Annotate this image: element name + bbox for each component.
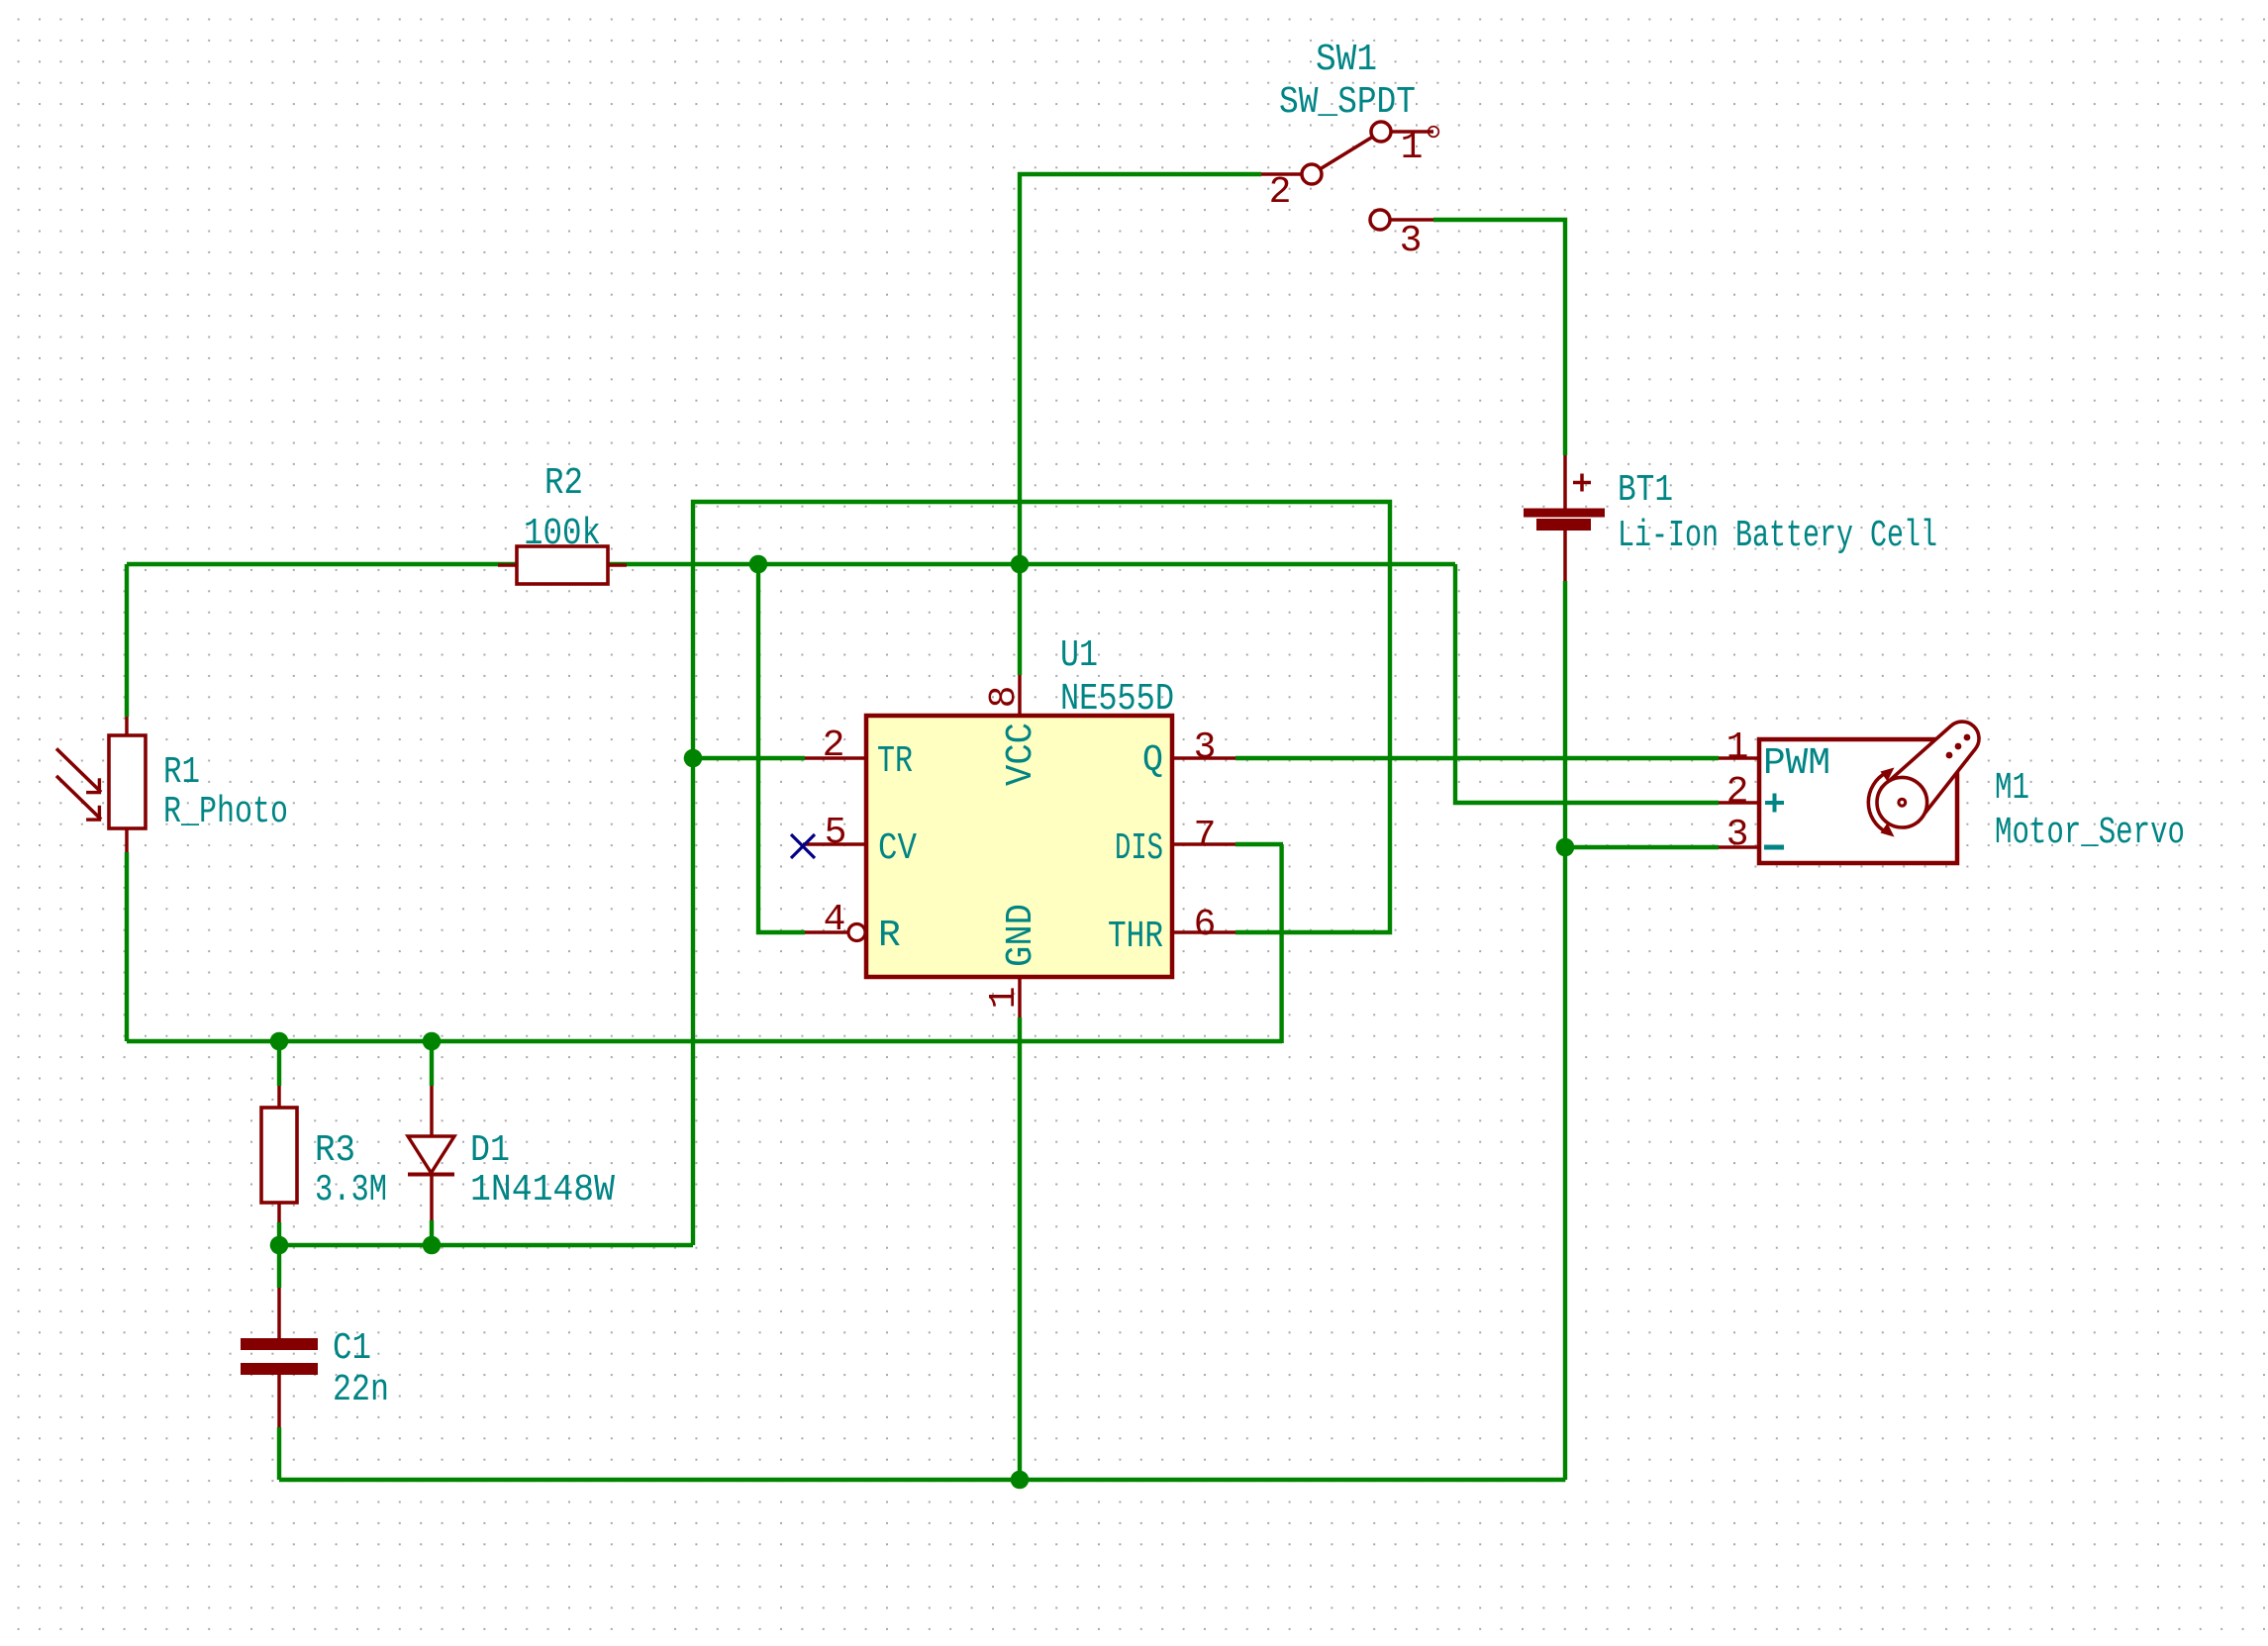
svg-text:1N4148W: 1N4148W — [470, 1169, 615, 1211]
svg-text:DIS: DIS — [1115, 827, 1163, 870]
svg-text:CV: CV — [878, 827, 917, 870]
svg-text:Li-Ion Battery Cell: Li-Ion Battery Cell — [1618, 515, 1937, 557]
svg-text:R_Photo: R_Photo — [163, 791, 288, 833]
svg-text:PWM: PWM — [1763, 742, 1830, 785]
svg-text:3.3M: 3.3M — [315, 1169, 387, 1211]
svg-text:R1: R1 — [163, 751, 200, 794]
svg-text:3: 3 — [1194, 726, 1217, 769]
svg-text:1: 1 — [983, 987, 1026, 1010]
svg-text:U1: U1 — [1060, 634, 1098, 677]
svg-text:GND: GND — [1000, 904, 1042, 967]
svg-text:6: 6 — [1194, 904, 1217, 946]
svg-text:C1: C1 — [333, 1327, 371, 1370]
svg-text:1: 1 — [1726, 726, 1749, 769]
svg-text:BT1: BT1 — [1618, 469, 1673, 512]
svg-text:7: 7 — [1194, 815, 1217, 857]
svg-text:2: 2 — [1269, 171, 1292, 214]
svg-text:2: 2 — [1726, 771, 1749, 814]
svg-text:100k: 100k — [524, 513, 601, 555]
svg-text:4: 4 — [824, 899, 846, 941]
svg-text:R3: R3 — [315, 1129, 355, 1172]
svg-text:1: 1 — [1401, 127, 1424, 169]
svg-text:R: R — [878, 915, 901, 957]
svg-text:5: 5 — [825, 812, 847, 854]
svg-text:VCC: VCC — [1000, 723, 1042, 786]
svg-text:3: 3 — [1726, 814, 1749, 856]
svg-text:M1: M1 — [1995, 767, 2029, 810]
svg-text:TR: TR — [877, 740, 913, 783]
svg-text:SW_SPDT: SW_SPDT — [1279, 81, 1416, 124]
svg-text:Q: Q — [1142, 739, 1163, 782]
svg-text:Motor_Servo: Motor_Servo — [1995, 812, 2185, 854]
svg-text:3: 3 — [1400, 220, 1423, 262]
svg-text:22n: 22n — [333, 1369, 389, 1411]
svg-text:R2: R2 — [544, 462, 583, 505]
svg-text:SW1: SW1 — [1316, 39, 1377, 81]
svg-text:NE555D: NE555D — [1060, 678, 1174, 721]
svg-text:D1: D1 — [470, 1129, 510, 1172]
svg-text:8: 8 — [983, 686, 1026, 709]
svg-text:THR: THR — [1108, 916, 1163, 958]
svg-text:2: 2 — [823, 725, 845, 767]
